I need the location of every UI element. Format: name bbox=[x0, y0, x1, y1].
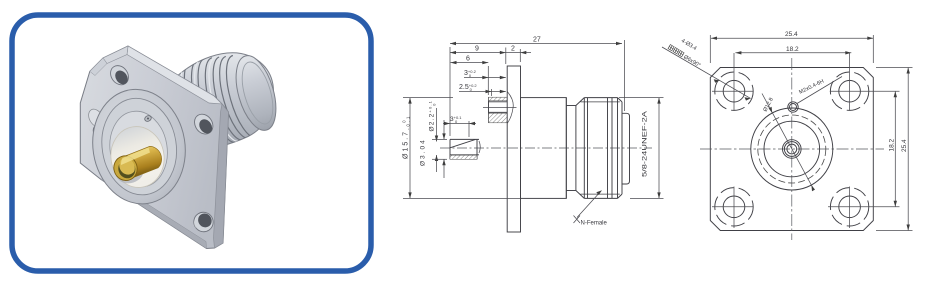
front dim Ø12.8 diagonal bbox=[762, 94, 815, 192]
3D connector square flange bbox=[80, 46, 228, 249]
side view main cylinder bbox=[521, 98, 567, 199]
side view threaded section 5/8-24UNEF bbox=[576, 98, 622, 199]
front view square flange outline bbox=[710, 68, 873, 231]
svg-text:3+0.20: 3+0.20 bbox=[464, 69, 477, 78]
svg-text:M2x0.4-6H: M2x0.4-6H bbox=[798, 79, 825, 96]
front dim 18.2 right bbox=[862, 91, 900, 207]
svg-text:2.5+0.20: 2.5+0.20 bbox=[459, 83, 477, 92]
svg-text:18.2: 18.2 bbox=[888, 138, 895, 151]
3D central boss rings bbox=[85, 83, 194, 211]
side view broken-out section at flange front bbox=[483, 92, 517, 124]
side dim 3 +0.2/0 bbox=[464, 69, 506, 79]
front view bolt hole top-left bbox=[712, 53, 754, 111]
front view bolt hole top-right bbox=[830, 53, 869, 111]
front view central boss circle Ø12.8 bbox=[751, 108, 833, 190]
side dim Ø15.7 0/-0.1 bbox=[401, 98, 520, 199]
blue rounded border frame bbox=[12, 15, 371, 271]
side view centerline bbox=[440, 147, 652, 149]
svg-text:25.4: 25.4 bbox=[785, 31, 798, 38]
svg-text:Ø3.04: Ø3.04 bbox=[420, 138, 427, 166]
side view front socket tube bbox=[450, 139, 480, 159]
side dim 6 bbox=[451, 56, 489, 95]
side view neck groove bbox=[566, 98, 576, 199]
side dim 27 bbox=[450, 37, 625, 137]
front view dashed circle bbox=[758, 115, 826, 183]
side dim 3 +0.1/0 (socket depth) bbox=[443, 115, 476, 137]
3D flange bolt hole right bbox=[191, 111, 217, 138]
front leader 4-Ø3.4 countersink note bbox=[662, 38, 751, 101]
svg-text:Ø6x90°: Ø6x90° bbox=[682, 54, 701, 69]
side dim thread caliper 5/8-24UNEF-2A bbox=[619, 98, 664, 199]
side dim 2.5 +0.2/0 bbox=[459, 83, 506, 96]
3D flange bolt hole bottom-right bbox=[190, 209, 217, 236]
svg-text:9: 9 bbox=[475, 46, 479, 53]
svg-text:5/8-24UNEF-2A: 5/8-24UNEF-2A bbox=[642, 111, 648, 177]
side dim Ø2.2 +0.1/0 bbox=[428, 100, 439, 172]
front view inner recess circle bbox=[764, 121, 820, 177]
3D flange bolt hole left (mostly hidden behind boss) bbox=[86, 107, 111, 145]
front dim 18.2 top bbox=[735, 46, 851, 55]
front view bolt hole bottom-left bbox=[712, 187, 754, 229]
3D barrel end cap bbox=[229, 51, 284, 135]
3D white dielectric disc bbox=[107, 123, 169, 192]
svg-text:6: 6 bbox=[466, 56, 470, 63]
svg-text:Ø2.2+0.10: Ø2.2+0.10 bbox=[428, 100, 437, 132]
side dim 2 (flange thickness) bbox=[506, 46, 531, 62]
side dim Ø3.04 bbox=[420, 120, 448, 178]
svg-text:3+0.10: 3+0.10 bbox=[450, 115, 462, 124]
svg-text:25.4: 25.4 bbox=[901, 139, 908, 152]
3D M2 screw hole on boss bbox=[144, 115, 152, 123]
side view rear end cap bbox=[622, 113, 630, 184]
side label N-Female with leader bbox=[574, 191, 608, 227]
svg-text:N-Female: N-Female bbox=[581, 221, 608, 227]
front view center contact circles bbox=[783, 140, 802, 159]
front dim 25.4 top bbox=[710, 31, 873, 63]
svg-text:Ø12.8: Ø12.8 bbox=[762, 97, 774, 113]
front view bolt hole bottom-right bbox=[828, 187, 869, 229]
3D connector barrel (threaded rear) bbox=[175, 51, 283, 151]
front dim 25.4 right bbox=[876, 68, 913, 231]
front view M2 tapped hole bbox=[788, 77, 842, 113]
svg-text:27: 27 bbox=[533, 37, 541, 44]
side view flange plate bbox=[507, 66, 520, 232]
3D gold center contact bbox=[111, 146, 162, 186]
front view centerlines bbox=[700, 58, 884, 240]
svg-text:4-Ø3.4: 4-Ø3.4 bbox=[680, 38, 698, 52]
svg-text:Ø15.7-0.10: Ø15.7-0.10 bbox=[401, 115, 410, 159]
side dim 9 bbox=[450, 46, 506, 64]
svg-text:18.2: 18.2 bbox=[786, 46, 799, 53]
svg-text:2: 2 bbox=[511, 46, 515, 53]
3D flange bolt hole top bbox=[107, 62, 132, 88]
